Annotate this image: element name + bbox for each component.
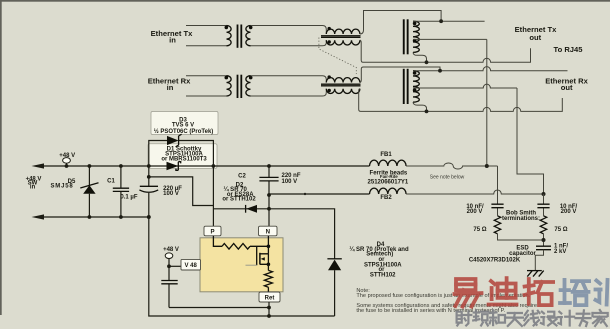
Bob Smith right branch: 10nF cap	[537, 194, 549, 216]
svg-text:SMJ58: SMJ58	[50, 184, 73, 190]
terminal Ret box	[259, 292, 280, 302]
svg-text:in: in	[167, 83, 174, 92]
svg-text:in: in	[169, 35, 176, 44]
T4 core	[403, 69, 405, 104]
internal sense resistor	[267, 264, 269, 270]
fuse (see note) on FB1 line	[406, 163, 497, 169]
CMC2 winding D (bottom)	[326, 89, 360, 94]
white box behind D3 label	[151, 112, 218, 135]
CMC1 winding B (bottom)	[326, 40, 360, 45]
bottom return rail with left arrow	[43, 216, 149, 218]
svg-text:75 Ω: 75 Ω	[554, 227, 567, 233]
wire +48V leg to Ret node	[169, 307, 269, 309]
wire T4 top lead to Ethernet Rx out, hop over VA	[413, 67, 568, 71]
left return path (bottom rail down and across)	[149, 217, 335, 316]
svg-text:100 V: 100 V	[163, 191, 179, 197]
svg-text:FB2: FB2	[380, 195, 392, 201]
T2 Ethernet Rx in transformer	[186, 75, 253, 98]
wire T1 secondary top to CMC1	[251, 26, 327, 35]
svg-text:C2: C2	[238, 174, 246, 180]
CMC1 core lines	[321, 36, 361, 38]
svg-text:0.1 µF: 0.1 µF	[120, 195, 137, 201]
Bob Smith left branch: 75 ohm resistor	[494, 216, 500, 234]
wire T4 center tap to VB, hop over VA	[413, 84, 517, 88]
diode D3 TVS bridge	[149, 134, 214, 166]
svg-text:Fair-Rite: Fair-Rite	[380, 174, 398, 179]
internal MOSFET Q	[246, 236, 271, 266]
CMC2 core lines	[321, 84, 361, 86]
svg-text:V 48: V 48	[185, 263, 198, 269]
svg-text:FB1: FB1	[380, 152, 392, 158]
T3 secondary winding	[413, 21, 419, 52]
svg-text:+48 V: +48 V	[163, 247, 179, 253]
wire CMC1 A output route to T3 top	[360, 11, 441, 35]
diode D4	[327, 259, 341, 316]
svg-text:TVS 6 V: TVS 6 V	[172, 123, 194, 129]
svg-text:or STTH102: or STTH102	[222, 197, 256, 203]
ground (earth) symbol	[527, 271, 544, 277]
svg-text:Ret: Ret	[265, 296, 275, 302]
wire T3 center tap	[413, 38, 487, 40]
Ret vertical to ground bus	[268, 302, 270, 316]
+48V SW in rail (top) with left arrow	[43, 165, 370, 167]
wire 220uF tap to P branch (zigzag link)	[149, 177, 214, 206]
wire T1 secondary bottom to CMC1	[251, 40, 327, 46]
wire T2 secondary top to CMC2	[251, 76, 327, 83]
wire T3 bottom lead down to Tx pair line	[413, 52, 427, 62]
svg-text:100 V: 100 V	[282, 179, 298, 185]
diode D1 Schottky on rail	[167, 162, 181, 171]
wire T3 top lead to Ethernet Tx out	[413, 20, 485, 22]
svg-text:C4520X7R3D102K: C4520X7R3D102K	[469, 258, 521, 264]
wire Rx pair line (CMC2 D to RJ45 stub) hops over VA and VB	[359, 89, 563, 112]
diode D5 SMJ58 (TVS)	[80, 164, 98, 219]
CMC1 winding A (top)	[326, 29, 360, 34]
svg-text:out: out	[561, 83, 573, 92]
capacitor 220uF 100V (polarized)	[139, 164, 158, 219]
wire FB2 to Bob Smith right, hop over left branch	[406, 190, 543, 194]
svg-text:P: P	[210, 229, 214, 236]
watermark logo (red+blue CJK): Yi Di Tuo Pei Xun	[455, 279, 482, 307]
vertical bus VA: Tx center tap down to FB1 fuse junction	[486, 39, 488, 166]
diode D2	[213, 205, 271, 213]
T3 core	[403, 19, 405, 54]
svg-text:in: in	[30, 185, 36, 191]
svg-text:capacitor: capacitor	[509, 251, 536, 257]
svg-text:terminations:: terminations:	[502, 216, 540, 222]
ESD capacitor 1nF 2kV	[535, 246, 551, 270]
wire D2 node to D4	[269, 209, 335, 259]
svg-text:N: N	[266, 229, 270, 236]
terminal N box	[259, 226, 278, 236]
svg-text:½ PSOT06C (ProTek): ½ PSOT06C (ProTek)	[154, 128, 214, 135]
capacitor C2 220nF 100V	[259, 164, 278, 195]
capacitor on +48V leg	[161, 281, 177, 284]
svg-text:75 Ω: 75 Ω	[473, 227, 486, 233]
ferrite bead FB1	[370, 160, 407, 166]
svg-text:or MBRS1100T3: or MBRS1100T3	[161, 156, 207, 162]
wire CMC2 C output route to T4 top	[360, 67, 440, 83]
svg-text:out: out	[529, 33, 541, 42]
Bob Smith left branch: 10nF cap	[491, 166, 503, 216]
svg-text:2512066017Y1: 2512066017Y1	[368, 180, 409, 186]
PD controller block (yellow)	[200, 238, 283, 292]
top frame border	[0, 0, 610, 2]
ferrite bead FB2	[269, 193, 370, 195]
capacitor C1 0.1uF	[113, 164, 129, 219]
wire Tx pair line (CMC1 B to RJ45 stub) with hop over VA	[360, 40, 531, 62]
svg-text:C1: C1	[107, 178, 115, 184]
svg-text:To RJ45: To RJ45	[554, 45, 584, 54]
svg-text:2 kV: 2 kV	[554, 249, 566, 255]
watermark slogan (gray CJK): She Pin He Tian Xian She Ji Zhuan Jia	[457, 311, 472, 325]
svg-text:200 V: 200 V	[467, 209, 483, 215]
dotted coupling line CMC1-CMC2	[319, 38, 356, 75]
junction P node on rail	[212, 164, 216, 168]
T4 secondary winding	[413, 71, 419, 103]
wire T4 bottom lead down to Rx pair line	[413, 102, 427, 111]
wire T2 secondary bottom to CMC2	[251, 89, 327, 96]
CMC2 winding C (top)	[326, 78, 360, 83]
svg-text:200 V: 200 V	[561, 209, 577, 215]
svg-text:STTH102: STTH102	[370, 272, 396, 278]
N branch vertical (C2 to N terminal)	[268, 195, 270, 226]
svg-text:See note below: See note below	[430, 175, 465, 181]
left frame border	[0, 0, 2, 315]
T1 Ethernet Tx in transformer	[186, 25, 253, 48]
internal resistor (P to gate)	[213, 236, 222, 247]
white box behind D1 label	[148, 144, 217, 169]
vertical bus VB: Rx center tap down to FB2 junction	[517, 88, 544, 194]
Bob Smith right branch: 75 ohm resistor	[540, 216, 546, 234]
P branch vertical (rail to P terminal)	[212, 166, 214, 226]
terminal P box	[204, 226, 221, 236]
V 48 box	[169, 265, 181, 267]
